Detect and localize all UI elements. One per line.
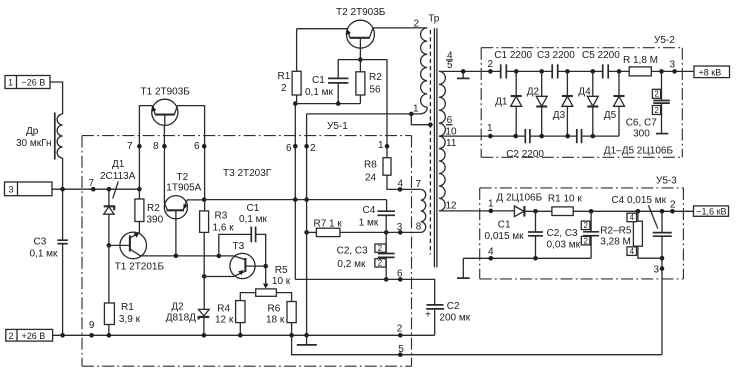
svg-text:3,9 к: 3,9 к bbox=[119, 314, 141, 325]
svg-text:3: 3 bbox=[9, 184, 14, 194]
svg-text:Т1 2Т903Б: Т1 2Т903Б bbox=[141, 87, 191, 98]
capacitor C2 2200 (bottom rail) bbox=[506, 129, 544, 160]
svg-text:3: 3 bbox=[397, 222, 403, 233]
resistor R7 1k bbox=[307, 219, 421, 237]
resistor R8 24 bbox=[364, 146, 421, 189]
svg-text:2: 2 bbox=[488, 59, 494, 70]
U5-1 pin 6 vertical wire bbox=[294, 104, 296, 280]
svg-text:+: + bbox=[425, 310, 431, 321]
terminal 1 (-26 V) bbox=[5, 76, 50, 89]
choke Dr 30 uH bbox=[16, 113, 63, 160]
svg-text:6: 6 bbox=[286, 143, 292, 154]
svg-text:11: 11 bbox=[446, 138, 457, 149]
top rail segment C5-R bbox=[608, 70, 629, 72]
svg-text:С1: С1 bbox=[312, 75, 325, 86]
svg-text:4: 4 bbox=[630, 213, 635, 222]
svg-text:С6, С7: С6, С7 bbox=[626, 118, 658, 129]
junction C1 bottom bbox=[336, 101, 341, 106]
svg-text:7: 7 bbox=[89, 178, 95, 189]
svg-text:2: 2 bbox=[670, 200, 676, 211]
svg-text:6: 6 bbox=[397, 269, 403, 280]
feedback winding (pins 7-8) bbox=[421, 189, 426, 232]
resistor R3 1.6k bbox=[200, 211, 235, 277]
capacitor C3 2200 bbox=[537, 50, 575, 79]
diode D2 (U5-2) bbox=[527, 71, 548, 136]
svg-text:2: 2 bbox=[654, 106, 659, 115]
potentiometer R5 10k bbox=[256, 265, 291, 296]
svg-text:3,28 М: 3,28 М bbox=[600, 237, 631, 248]
junction C1 left lead bbox=[217, 254, 222, 259]
transistor T3 bbox=[204, 241, 266, 279]
bottom rail to D5 bbox=[582, 135, 620, 137]
U5-3 ground wire (pin 4) bbox=[457, 258, 591, 278]
svg-text:Д1: Д1 bbox=[112, 159, 125, 170]
svg-text:R7 1 к: R7 1 к bbox=[314, 219, 343, 230]
svg-text:Д4: Д4 bbox=[578, 87, 591, 98]
wire emitter line to U5-1 pins bbox=[204, 199, 386, 201]
svg-text:10 к: 10 к bbox=[272, 276, 291, 287]
zener D2 D818D bbox=[166, 276, 210, 335]
U5-2 pin 3 marker bbox=[672, 69, 677, 74]
svg-text:4: 4 bbox=[630, 247, 635, 256]
junction terminal3 rail / R2 line bbox=[137, 187, 142, 192]
junction T3 emitter / D2 bbox=[202, 274, 207, 279]
top rail segment C3-C5 bbox=[558, 70, 603, 72]
svg-text:R1 10 к: R1 10 к bbox=[548, 194, 582, 205]
svg-text:У5-3: У5-3 bbox=[656, 176, 677, 187]
svg-text:С2: С2 bbox=[447, 301, 460, 312]
node 6 vertical wire bbox=[204, 105, 206, 210]
svg-text:2: 2 bbox=[414, 19, 420, 30]
svg-text:С2 2200: С2 2200 bbox=[506, 149, 544, 160]
resistor R1 2 bbox=[278, 29, 302, 104]
svg-text:Д2: Д2 bbox=[527, 87, 540, 98]
svg-text:2: 2 bbox=[310, 143, 316, 154]
svg-text:У5-1: У5-1 bbox=[327, 121, 348, 132]
node 8 marker bbox=[162, 144, 167, 149]
transistor T2 2T903B bbox=[297, 7, 428, 59]
svg-text:1,6 к: 1,6 к bbox=[213, 223, 235, 234]
junction C1 bottom bbox=[533, 256, 538, 261]
svg-text:Д818Д: Д818Д bbox=[166, 313, 196, 324]
primary winding (pins 2-1) bbox=[411, 19, 427, 115]
pin 6 marker bbox=[398, 277, 403, 282]
svg-text:Д1: Д1 bbox=[495, 97, 508, 108]
wire down to pin 3 and bottom rail bbox=[661, 258, 663, 355]
svg-text:56: 56 bbox=[370, 85, 382, 96]
svg-text:300: 300 bbox=[633, 129, 650, 140]
svg-text:2С113А: 2С113А bbox=[100, 171, 136, 182]
wire D1 line down to R1 bbox=[108, 245, 110, 303]
svg-text:У5-2: У5-2 bbox=[654, 35, 675, 46]
transistor T1 2T903B bbox=[139, 87, 204, 126]
svg-text:С4: С4 bbox=[363, 205, 376, 216]
terminal 2 (+26 V) bbox=[6, 329, 53, 341]
svg-text:24: 24 bbox=[365, 173, 377, 184]
svg-text:Т3 2Т203Г: Т3 2Т203Г bbox=[223, 168, 272, 179]
svg-text:7: 7 bbox=[416, 179, 422, 190]
wire choke to terminal3 rail bbox=[62, 158, 64, 189]
svg-text:R4: R4 bbox=[217, 303, 230, 314]
svg-text:Т1 2Т201Б: Т1 2Т201Б bbox=[115, 262, 165, 273]
svg-text:0,015 мк: 0,015 мк bbox=[485, 231, 525, 242]
svg-text:3: 3 bbox=[654, 265, 660, 276]
diode D 2Ts106B bbox=[496, 193, 552, 217]
resistor R 1.8M bbox=[623, 55, 658, 76]
wire R to +8kV output bbox=[651, 70, 694, 72]
terminal 3 bbox=[5, 182, 53, 196]
svg-text:2: 2 bbox=[378, 259, 383, 268]
svg-text:С2, С3: С2, С3 bbox=[547, 228, 579, 239]
svg-text:18 к: 18 к bbox=[266, 315, 285, 326]
capacitor C5 2200 bbox=[582, 50, 620, 79]
resistor R1 3.9k bbox=[104, 302, 140, 335]
junction T2 base on that line bbox=[174, 254, 179, 259]
resistor R1 10k (U5-3) bbox=[548, 194, 694, 216]
junction C1 top bbox=[533, 209, 538, 214]
pin 3 marker bbox=[398, 230, 403, 235]
capacitor C1 0.015uF (U5-3) bbox=[485, 211, 544, 258]
U5-1 pin 2 vertical wire bbox=[306, 114, 308, 335]
pin 9 marker bbox=[89, 333, 94, 338]
capacitors C2,C3 0.03uF (U5-3) bbox=[547, 211, 600, 258]
junction on screen line bbox=[428, 122, 433, 127]
svg-text:Д1–Д5 2Ц106Б: Д1–Д5 2Ц106Б bbox=[604, 146, 674, 157]
pin 4 marker bbox=[398, 187, 403, 192]
junction T2 emitter / node6 / R3 bbox=[202, 197, 207, 202]
svg-text:−26 В: −26 В bbox=[22, 78, 46, 88]
svg-text:С5 2200: С5 2200 bbox=[582, 50, 620, 61]
pin 5 wire bottom bbox=[292, 335, 662, 354]
junction primary pin1 node bbox=[409, 112, 414, 117]
svg-text:Д2: Д2 bbox=[171, 301, 184, 312]
svg-text:0,1 мк: 0,1 мк bbox=[30, 249, 59, 260]
svg-text:R2: R2 bbox=[147, 203, 160, 214]
secondary winding top (pins 4,5 - 6,10,11) bbox=[439, 51, 453, 137]
svg-text:Т2 2Т903Б: Т2 2Т903Б bbox=[336, 7, 386, 18]
node 8 vertical wire bbox=[163, 125, 165, 203]
junction C3 bottom bbox=[60, 333, 65, 338]
capacitor C1 2200 bbox=[494, 50, 532, 79]
wire R5 left to R4 bbox=[240, 293, 255, 301]
resistor R6 18k bbox=[266, 302, 296, 336]
svg-text:R2–R5: R2–R5 bbox=[600, 226, 632, 237]
wire bottom of R1/C1/R2 bbox=[295, 103, 360, 105]
U5-3 pin 4 marker bbox=[489, 256, 494, 261]
svg-text:8: 8 bbox=[416, 222, 422, 233]
svg-text:С1: С1 bbox=[498, 220, 511, 231]
svg-text:Т3: Т3 bbox=[233, 241, 245, 252]
junction R1 bottom bbox=[293, 101, 298, 106]
junction C4 top bbox=[660, 209, 665, 214]
svg-text:1Т905А: 1Т905А bbox=[166, 183, 201, 194]
junction T1 base bbox=[107, 243, 112, 248]
junction T3 base / wiper bbox=[263, 264, 268, 269]
capacitors C6,C7 300 bbox=[626, 71, 670, 139]
junction D2 on +26 rail bbox=[202, 333, 207, 338]
svg-text:7: 7 bbox=[127, 141, 133, 152]
capacitors C2,C3 0.2uF bbox=[337, 232, 395, 279]
wire terminal 3 rail bbox=[52, 188, 139, 190]
svg-text:2: 2 bbox=[584, 221, 589, 230]
svg-text:Д3: Д3 bbox=[553, 110, 566, 121]
svg-text:30 мкГн: 30 мкГн bbox=[16, 138, 52, 149]
svg-text:Д5: Д5 bbox=[604, 110, 617, 121]
svg-text:3: 3 bbox=[670, 60, 676, 71]
svg-text:1: 1 bbox=[488, 199, 494, 210]
resistor R2 390 bbox=[135, 199, 164, 226]
zener D1 2S113A bbox=[100, 159, 136, 245]
output box +8 kV bbox=[694, 66, 730, 78]
svg-text:Тр: Тр bbox=[428, 14, 440, 25]
transformer screen (dashed) bbox=[429, 30, 431, 254]
node 7 marker bbox=[137, 144, 142, 149]
svg-text:6: 6 bbox=[194, 141, 200, 152]
module boundary U5-2 (dash-dot frame) bbox=[481, 35, 682, 157]
top rail segment C1-C3 bbox=[506, 70, 552, 72]
wire base node to C1 and R8 line bbox=[338, 60, 387, 147]
diode D3 (U5-2) bbox=[553, 71, 573, 136]
junction C2C3 top bbox=[589, 209, 594, 214]
wire winding 4,5 to U5-2 pin 2 bbox=[439, 70, 501, 72]
svg-text:2: 2 bbox=[378, 244, 383, 253]
svg-text:390: 390 bbox=[147, 215, 164, 226]
svg-text:R1: R1 bbox=[121, 302, 134, 313]
diode D1 (U5-2) bbox=[495, 71, 522, 136]
resistors R2-R5 3.28M bbox=[600, 211, 662, 258]
svg-text:R6: R6 bbox=[268, 303, 281, 314]
svg-text:200 мк: 200 мк bbox=[439, 313, 470, 324]
svg-text:С2, С3: С2, С3 bbox=[337, 246, 369, 257]
junction R1 bottom on +26 rail bbox=[107, 333, 112, 338]
svg-text:4: 4 bbox=[398, 179, 404, 190]
secondary winding bottom (to pin 12) bbox=[439, 115, 457, 211]
wire pin1 node to screen bbox=[411, 114, 430, 125]
svg-text:Д 2Ц106Б: Д 2Ц106Б bbox=[496, 193, 542, 204]
capacitor C3 0.1uF (left) bbox=[30, 189, 68, 335]
transistor T1 2T201B bbox=[109, 232, 164, 272]
junction at D1 top bbox=[107, 187, 112, 192]
svg-text:9: 9 bbox=[89, 320, 95, 331]
svg-text:2: 2 bbox=[584, 236, 589, 245]
capacitor C1 0.1uF (top) bbox=[305, 75, 348, 104]
svg-text:0,2 мк: 0,2 мк bbox=[337, 259, 366, 270]
svg-text:Др: Др bbox=[26, 126, 39, 137]
wire T1 collector / T2 base / T3 collector line bbox=[141, 255, 234, 257]
node 6 marker bbox=[202, 144, 207, 149]
U5-2 pin 2 marker bbox=[488, 69, 493, 74]
output box -1.6 kV bbox=[694, 206, 729, 217]
wire winding 6,10,11 to U5-2 pin 1 / bottom rail bbox=[439, 135, 525, 137]
wire winding 12 to U5-3 pin 1 bbox=[439, 210, 515, 212]
wire node7 vertical bbox=[138, 105, 140, 199]
svg-text:2: 2 bbox=[397, 324, 403, 335]
svg-text:12 к: 12 к bbox=[215, 315, 234, 326]
svg-text:8: 8 bbox=[153, 141, 159, 152]
svg-text:2: 2 bbox=[654, 90, 659, 99]
svg-text:R8: R8 bbox=[364, 160, 377, 171]
transformer core bbox=[433, 28, 435, 267]
svg-text:1 мк: 1 мк bbox=[359, 218, 379, 229]
chassis ground at winding top bbox=[457, 71, 470, 78]
diode D4 (U5-2) bbox=[578, 71, 598, 136]
U5-3 pin 3 marker bbox=[660, 266, 665, 271]
wire terminal1 to choke bbox=[50, 82, 63, 114]
wire pin6 line to C2 200uF bbox=[295, 279, 434, 304]
capacitor C4 1uF bbox=[359, 200, 395, 233]
pin 7 marker on left border bbox=[91, 187, 96, 192]
resistor R2 56 bbox=[356, 60, 382, 104]
wire R5 right to R6 bbox=[276, 293, 291, 302]
+26 V rail bbox=[53, 334, 435, 336]
svg-text:0,03 мк: 0,03 мк bbox=[547, 240, 581, 251]
junction at x62.6 on terminal3 rail bbox=[60, 187, 65, 192]
U5-1 pin 1 marker bbox=[385, 144, 390, 149]
svg-text:R 1,8 М: R 1,8 М bbox=[623, 55, 658, 66]
svg-text:R2: R2 bbox=[369, 72, 382, 83]
svg-text:1: 1 bbox=[8, 78, 13, 88]
junction R2-R5 top bbox=[636, 209, 641, 214]
module boundary U5-3 (dash-dot frame) bbox=[480, 176, 684, 279]
junction T2 base node bbox=[358, 57, 363, 62]
svg-text:1: 1 bbox=[378, 140, 384, 151]
svg-text:С1: С1 bbox=[247, 203, 260, 214]
svg-text:С4 0,015 мк: С4 0,015 мк bbox=[611, 195, 666, 206]
svg-text:1: 1 bbox=[487, 123, 493, 134]
junction C2C3 bottom bbox=[384, 277, 389, 282]
capacitor C1 0.1uF (T3 feedback) bbox=[219, 203, 268, 266]
bottom rail segment bbox=[530, 135, 577, 137]
svg-text:12: 12 bbox=[446, 201, 458, 212]
svg-text:5: 5 bbox=[398, 344, 404, 355]
svg-text:2: 2 bbox=[281, 83, 287, 94]
U5-3 pin 2 marker bbox=[670, 209, 675, 214]
svg-text:R3: R3 bbox=[215, 211, 228, 222]
wire pin1 node to U5-1 pin 2 line bbox=[307, 113, 412, 115]
svg-text:Т2: Т2 bbox=[177, 172, 189, 183]
transistor T2 1T905A bbox=[164, 172, 204, 256]
capacitor C4 2200 (bottom rail) bbox=[577, 129, 582, 143]
svg-text:+8 кВ: +8 кВ bbox=[699, 68, 722, 78]
svg-text:−1,6 кВ: −1,6 кВ bbox=[696, 207, 726, 217]
junction C4 / C2C3 / pin3 node bbox=[384, 230, 389, 235]
capacitor C4 0.015uF (U5-3) bbox=[611, 195, 671, 258]
svg-text:С3: С3 bbox=[34, 237, 47, 248]
svg-text:4: 4 bbox=[488, 247, 494, 258]
module boundary U5-1 (dash-dot frame) bbox=[82, 121, 412, 366]
svg-text:+26 В: +26 В bbox=[22, 331, 46, 341]
U5-3 pin 1 marker bbox=[489, 209, 494, 214]
svg-text:R5: R5 bbox=[275, 265, 288, 276]
resistor R4 12k bbox=[215, 301, 245, 336]
ground symbol below +26 rail bbox=[297, 335, 317, 345]
svg-text:5: 5 bbox=[447, 60, 453, 71]
svg-text:0,1 мк: 0,1 мк bbox=[305, 87, 334, 98]
junction C4/R2R5 bottom bbox=[660, 256, 665, 261]
svg-text:0,1 мк: 0,1 мк bbox=[239, 214, 268, 225]
svg-text:2: 2 bbox=[9, 331, 14, 341]
svg-text:С3 2200: С3 2200 bbox=[537, 50, 575, 61]
svg-text:1: 1 bbox=[413, 104, 419, 115]
svg-text:R1: R1 bbox=[278, 71, 291, 82]
diode D5 (U5-2) bbox=[604, 71, 625, 136]
capacitor C2 200uF electrolytic bbox=[425, 301, 471, 335]
svg-text:С1 2200: С1 2200 bbox=[494, 50, 532, 61]
